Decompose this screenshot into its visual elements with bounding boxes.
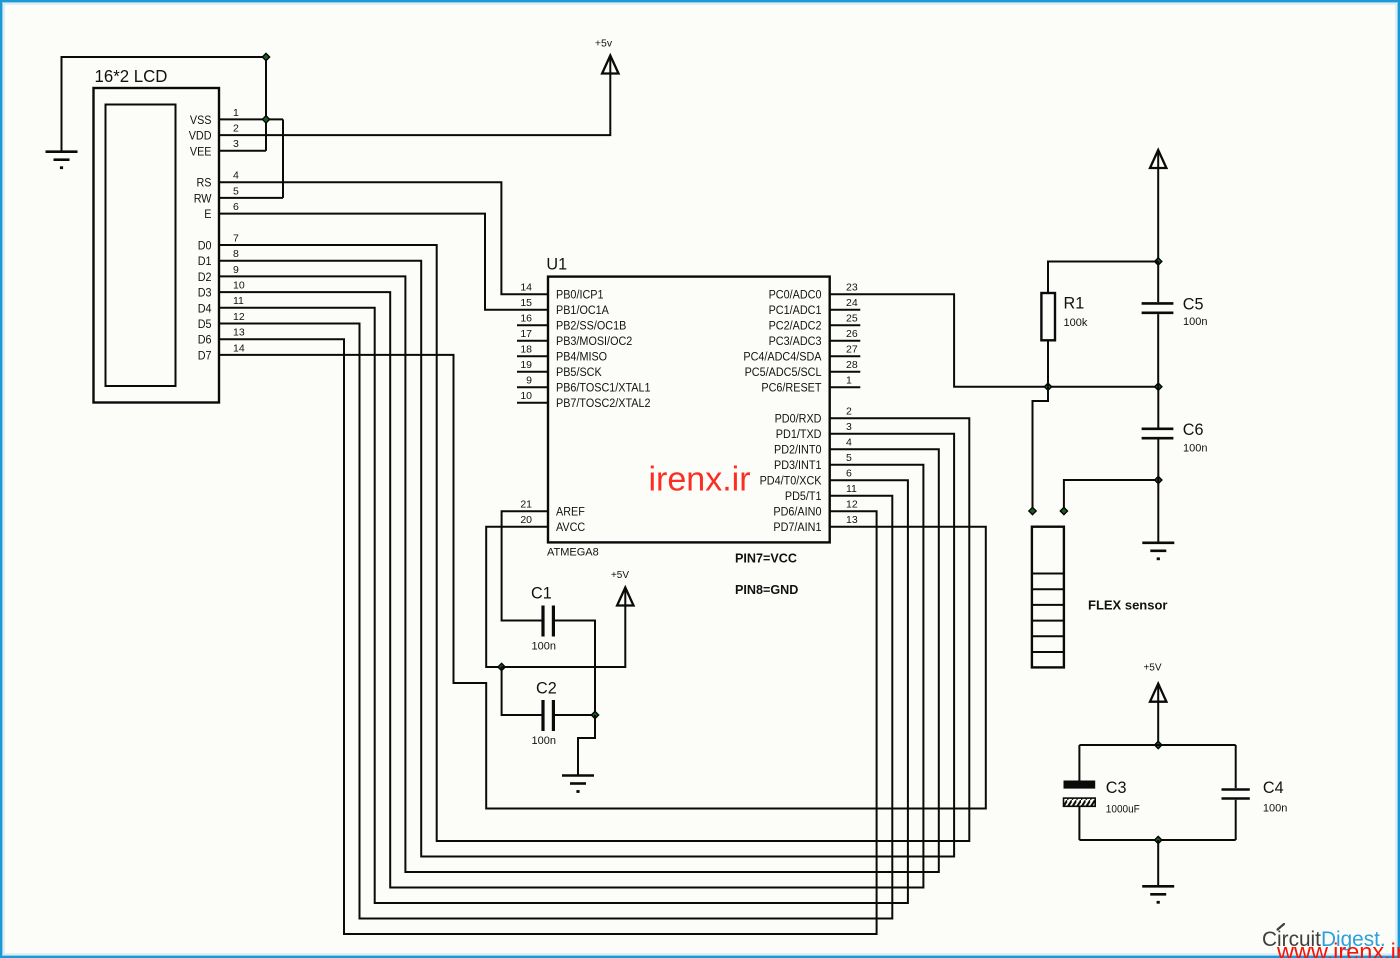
svg-text:1: 1 <box>233 107 239 119</box>
svg-text:PIN7=VCC: PIN7=VCC <box>735 552 797 566</box>
svg-text:2: 2 <box>846 406 852 418</box>
svg-text:E: E <box>204 209 212 221</box>
wire LCD pin2 VDD to +5v <box>219 58 610 136</box>
wire top node left to R1 <box>1048 262 1158 294</box>
node junction VSS/ground <box>262 116 269 123</box>
wire LCD D2 to U1 pin 4 PD2 <box>219 276 939 872</box>
node junction top corner <box>262 53 269 60</box>
svg-text:4: 4 <box>233 170 239 182</box>
wire +5V to top rail <box>1157 686 1159 745</box>
wire C1 right to C2 right <box>553 621 595 716</box>
LCD1 16*2 LCD display module <box>94 66 220 403</box>
svg-text:100n: 100n <box>1263 803 1287 815</box>
svg-text:RS: RS <box>197 178 212 190</box>
svg-text:10: 10 <box>520 390 532 402</box>
wire C3 top branch <box>1078 745 1080 781</box>
svg-text:PC0/ADC0: PC0/ADC0 <box>769 290 822 302</box>
wire C6 top <box>1157 387 1159 428</box>
wire C2 node to ground <box>578 715 595 776</box>
wire C4 bottom branch <box>1235 800 1237 840</box>
svg-text:RW: RW <box>194 193 212 205</box>
wire LCD D0 to U1 pin 2 PD0 <box>219 245 969 841</box>
svg-text:PC4/ADC4/SDA: PC4/ADC4/SDA <box>743 352 821 364</box>
svg-text:6: 6 <box>233 201 239 213</box>
svg-text:VDD: VDD <box>189 131 212 143</box>
svg-text:24: 24 <box>846 297 858 309</box>
U1 unconnected right pin stubs 24-28,1 <box>830 310 861 388</box>
svg-text:19: 19 <box>520 359 532 371</box>
wire C4 top branch <box>1235 745 1237 788</box>
svg-text:PB0/ICP1: PB0/ICP1 <box>556 290 604 302</box>
svg-text:www.irenx.ir: www.irenx.ir <box>1276 939 1400 958</box>
wire C3 bottom branch <box>1078 806 1080 840</box>
ground symbol (LCD supply) <box>46 152 78 169</box>
svg-text:5: 5 <box>846 452 852 464</box>
svg-text:3: 3 <box>233 138 239 150</box>
svg-text:3: 3 <box>846 421 852 433</box>
wire flex right terminal to C6 bottom <box>1064 480 1158 511</box>
resistor R1 100k <box>1041 293 1087 340</box>
svg-text:D4: D4 <box>198 303 212 315</box>
svg-text:ATMEGA8: ATMEGA8 <box>547 547 599 559</box>
svg-text:13: 13 <box>233 327 245 339</box>
node junction C5 bottom <box>1155 383 1162 390</box>
wire C6 bottom to ground <box>1157 480 1159 543</box>
svg-text:D7: D7 <box>198 350 212 362</box>
ground symbol (C2) <box>562 776 594 793</box>
wire LCD D3 to U1 pin 5 PD3 <box>219 292 923 887</box>
wire LCD pin3 VEE <box>219 150 266 152</box>
svg-text:R1: R1 <box>1064 295 1085 313</box>
svg-text:2: 2 <box>233 123 239 135</box>
svg-text:PD1/TXD: PD1/TXD <box>776 429 822 441</box>
wire LCD pin4 RS to U1 pin14 PB0 <box>219 182 548 294</box>
svg-text:15: 15 <box>520 297 532 309</box>
svg-text:10: 10 <box>233 280 245 292</box>
svg-text:5: 5 <box>233 185 239 197</box>
svg-text:7: 7 <box>233 232 239 244</box>
svg-text:11: 11 <box>846 483 857 495</box>
wire bottom rail C3-C4 <box>1079 839 1235 841</box>
svg-text:13: 13 <box>846 514 858 526</box>
wire top rail C3-C4 <box>1079 744 1235 746</box>
svg-text:23: 23 <box>846 282 858 294</box>
capacitor C5 100n <box>1142 295 1208 328</box>
svg-text:C4: C4 <box>1263 779 1284 797</box>
svg-text:100n: 100n <box>1183 443 1207 455</box>
svg-text:C1: C1 <box>531 585 552 603</box>
svg-text:11: 11 <box>233 295 244 307</box>
svg-text:PC5/ADC5/SCL: PC5/ADC5/SCL <box>745 367 822 379</box>
svg-text:AREF: AREF <box>556 507 585 519</box>
svg-text:AVCC: AVCC <box>556 522 585 534</box>
ground symbol (C6) <box>1142 543 1174 560</box>
svg-text:21: 21 <box>520 499 532 511</box>
svg-text:12: 12 <box>846 499 858 511</box>
svg-text:16: 16 <box>520 313 532 325</box>
svg-text:PC3/ADC3: PC3/ADC3 <box>769 336 822 348</box>
node junction C1/C2/ground <box>591 711 598 718</box>
wire ground up and over to VEE column <box>62 57 267 152</box>
capacitor C1 <box>531 585 556 653</box>
svg-text:C3: C3 <box>1106 779 1127 797</box>
svg-text:PB6/TOSC1/XTAL1: PB6/TOSC1/XTAL1 <box>556 383 651 395</box>
svg-text:D2: D2 <box>198 272 212 284</box>
svg-text:D0: D0 <box>198 241 212 253</box>
svg-text:D3: D3 <box>198 288 212 300</box>
wire LCD pin5 RW <box>219 197 283 199</box>
wire U1 pin23 PC0/ADC0 to R1/flex divider node <box>830 294 1159 387</box>
svg-text:D6: D6 <box>198 335 212 347</box>
svg-text:C6: C6 <box>1183 421 1204 439</box>
svg-text:U1: U1 <box>546 256 567 274</box>
wire U1 pin20 AVCC down to +5V rail <box>486 527 548 667</box>
node junction AVCC/+5V/C2 <box>498 663 505 670</box>
svg-text:PD0/RXD: PD0/RXD <box>775 414 822 426</box>
wire U1 pin21 AREF to C1 <box>502 511 548 620</box>
svg-text:100k: 100k <box>1064 317 1088 329</box>
svg-text:PB5/SCK: PB5/SCK <box>556 367 602 379</box>
capacitor C6 100n <box>1142 421 1208 455</box>
svg-text:12: 12 <box>233 311 245 323</box>
svg-text:PD4/T0/XCK: PD4/T0/XCK <box>760 476 822 488</box>
wire LCD pin1 VSS <box>219 118 283 120</box>
wire divider node down to flex sensor left terminal <box>1033 387 1049 511</box>
microcontroller U1 ATMEGA8 <box>546 256 829 559</box>
wire LCD D6 to U1 pin 12 PD6 <box>219 339 877 934</box>
svg-text:PB2/SS/OC1B: PB2/SS/OC1B <box>556 321 627 333</box>
svg-text:1: 1 <box>846 375 852 387</box>
svg-text:FLEX sensor: FLEX sensor <box>1088 598 1167 613</box>
wire +5v down to R1/C5 top node <box>1157 152 1159 262</box>
svg-text:20: 20 <box>520 514 532 526</box>
svg-text:PD2/INT0: PD2/INT0 <box>774 445 822 457</box>
logo CircuitDigest <box>1262 924 1386 951</box>
svg-text:VSS: VSS <box>190 115 212 127</box>
svg-text:4: 4 <box>846 437 852 449</box>
wire LCD D7 to U1 pin 13 PD7 <box>219 355 986 809</box>
svg-text:1000uF: 1000uF <box>1106 804 1140 816</box>
svg-text:PIN8=GND: PIN8=GND <box>735 583 798 597</box>
wire bottom rail to ground <box>1157 840 1159 886</box>
svg-text:25: 25 <box>846 313 858 325</box>
svg-text:irenx.ir: irenx.ir <box>649 461 751 499</box>
svg-text:PD7/AIN1: PD7/AIN1 <box>773 522 821 534</box>
svg-text:100n: 100n <box>1183 316 1207 328</box>
svg-text:14: 14 <box>233 342 245 354</box>
svg-text:PC6/RESET: PC6/RESET <box>761 383 821 395</box>
power +5v (top right) <box>1150 150 1166 168</box>
power +5v (top left) <box>595 38 619 74</box>
svg-text:D1: D1 <box>198 256 212 268</box>
LCD pin numbers 1-14 <box>233 107 245 354</box>
svg-text:VEE: VEE <box>190 146 212 158</box>
node junction top rail <box>1155 741 1162 748</box>
svg-text:+5V: +5V <box>611 570 629 581</box>
wire C2 right plate <box>553 714 595 716</box>
wire VSS column down to RW <box>282 119 284 197</box>
wire LCD D4 to U1 pin 6 PD4 <box>219 308 908 903</box>
svg-text:PB7/TOSC2/XTAL2: PB7/TOSC2/XTAL2 <box>556 398 651 410</box>
svg-text:18: 18 <box>520 344 532 356</box>
svg-text:27: 27 <box>846 344 858 356</box>
wire down VEE column <box>265 57 267 151</box>
node flex right terminal <box>1060 507 1067 514</box>
capacitor C2 <box>532 680 557 747</box>
svg-text:C5: C5 <box>1183 295 1204 313</box>
svg-text:16*2 LCD: 16*2 LCD <box>95 66 168 86</box>
node junction R1 bottom <box>1044 383 1051 390</box>
svg-text:PB3/MOSI/OC2: PB3/MOSI/OC2 <box>556 336 632 348</box>
U1 unconnected left pin stubs 16-19,9,10 <box>517 325 548 403</box>
svg-text:100n: 100n <box>532 641 556 653</box>
wire R1 bottom <box>1047 340 1049 386</box>
svg-text:+5V: +5V <box>1143 663 1161 674</box>
wire LCD pin6 E to U1 pin15 PB1 <box>219 214 548 310</box>
svg-text:6: 6 <box>846 468 852 480</box>
capacitor C4 100n <box>1222 779 1288 815</box>
svg-text:PD3/INT1: PD3/INT1 <box>774 460 822 472</box>
U1 left pin numbers <box>520 282 532 526</box>
svg-text:PC1/ADC1: PC1/ADC1 <box>769 305 822 317</box>
ground symbol (bulk caps) <box>1142 886 1174 903</box>
node junction bottom rail <box>1155 836 1162 843</box>
FLEX sensor body <box>1032 527 1064 668</box>
svg-text:9: 9 <box>233 264 239 276</box>
power +5V (bulk caps) <box>1143 663 1166 702</box>
svg-text:14: 14 <box>520 282 532 294</box>
svg-text:D5: D5 <box>198 319 212 331</box>
svg-text:PD5/T1: PD5/T1 <box>785 491 822 503</box>
U1 right pin numbers <box>846 282 858 526</box>
wire C5 bottom <box>1157 314 1159 387</box>
wire LCD D1 to U1 pin 3 PD1 <box>219 261 954 857</box>
power +5V (decoupling) <box>611 570 634 606</box>
svg-text:+5v: +5v <box>595 38 613 50</box>
wire C5 top <box>1157 262 1159 303</box>
wire +5V node down to C2 <box>502 667 544 715</box>
svg-text:9: 9 <box>526 375 532 387</box>
node junction C6 bottom <box>1155 476 1162 483</box>
node junction R1/C5 top <box>1155 258 1162 265</box>
svg-text:PB4/MISO: PB4/MISO <box>556 352 607 364</box>
wire LCD D5 to U1 pin 11 PD5 <box>219 324 892 919</box>
svg-text:17: 17 <box>520 328 532 340</box>
svg-text:26: 26 <box>846 328 858 340</box>
svg-text:PC2/ADC2: PC2/ADC2 <box>769 321 822 333</box>
wire C6 bottom plate to node <box>1157 440 1159 481</box>
svg-text:PB1/OC1A: PB1/OC1A <box>556 305 609 317</box>
svg-text:8: 8 <box>233 248 239 260</box>
svg-text:PD6/AIN0: PD6/AIN0 <box>773 507 821 519</box>
svg-text:28: 28 <box>846 359 858 371</box>
wire +5V rail <box>502 590 626 668</box>
node flex left terminal <box>1029 507 1036 514</box>
svg-text:100n: 100n <box>532 735 556 747</box>
capacitor C3 1000uF electrolytic <box>1064 779 1141 816</box>
svg-text:C2: C2 <box>536 680 557 698</box>
